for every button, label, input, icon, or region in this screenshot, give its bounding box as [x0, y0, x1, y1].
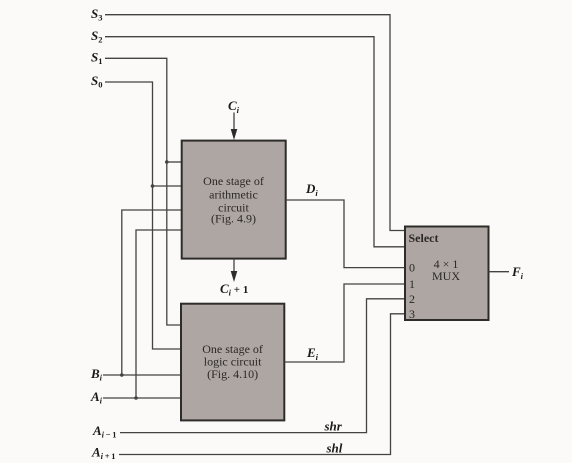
svg-text:0: 0	[409, 261, 415, 275]
box arithmetic stage	[182, 141, 286, 259]
svg-text:2: 2	[409, 292, 415, 306]
wire Ci+1 output arrow	[233, 259, 235, 272]
wire S2	[105, 37, 405, 247]
box 4x1 MUX	[405, 227, 489, 321]
wire Ci input arrow	[233, 113, 235, 132]
wire S1 tap to arithmetic	[167, 161, 182, 163]
wire Bi	[103, 374, 182, 376]
svg-text:arithmetic: arithmetic	[209, 188, 258, 202]
svg-text:shr: shr	[324, 419, 343, 434]
wire S1	[105, 58, 182, 325]
svg-text:3: 3	[409, 307, 415, 321]
wire Ai	[103, 397, 182, 399]
svg-text:(Fig. 4.10): (Fig. 4.10)	[207, 367, 258, 381]
wire Ei to MUX input 1	[284, 284, 405, 362]
wire Ai tap to arithmetic	[136, 230, 182, 398]
wire S0	[105, 82, 182, 349]
svg-text:1: 1	[409, 277, 415, 291]
box logic stage	[181, 304, 284, 421]
wire S3	[105, 15, 405, 231]
junction S1	[165, 160, 169, 164]
svg-text:shl: shl	[326, 441, 343, 456]
wire Bi tap to arithmetic	[122, 210, 182, 375]
wire Ai-1 / shr to MUX input 2	[120, 299, 405, 433]
svg-text:One stage of: One stage of	[203, 174, 264, 188]
wire Fi output	[489, 271, 510, 273]
svg-text:Select: Select	[409, 231, 439, 245]
svg-text:Ci + 1: Ci + 1	[220, 281, 248, 298]
svg-text:MUX: MUX	[432, 269, 460, 283]
junction Bi	[120, 373, 124, 377]
junction S0	[151, 184, 155, 188]
junction Ai	[134, 396, 138, 400]
wire S0 tap to arithmetic	[153, 185, 183, 187]
wire Ai+1 / shl to MUX input 3	[119, 314, 405, 455]
wire Di to MUX input 0	[286, 200, 405, 268]
svg-text:(Fig. 4.9): (Fig. 4.9)	[211, 212, 256, 226]
